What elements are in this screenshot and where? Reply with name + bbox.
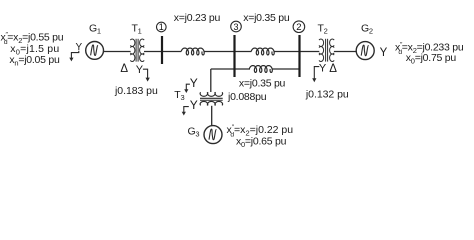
node 3 circled — [231, 21, 242, 32]
svg-text:x=j0.35 pu: x=j0.35 pu — [243, 12, 290, 24]
ground arrow at G1 — [69, 51, 79, 62]
inductor x=j0.35 upper — [251, 48, 274, 55]
generator G2 circle — [356, 42, 374, 60]
lower branch wire: T3 tap through bus3 to coil3 — [211, 68, 250, 70]
transformer T2 — [319, 39, 334, 62]
lower branch wire coil3 to bus2 — [273, 68, 300, 70]
node 2 circled — [293, 21, 305, 33]
bus 3 — [233, 35, 235, 77]
svg-text:T1: T1 — [132, 23, 142, 36]
svg-text:j0.088pu: j0.088pu — [227, 91, 267, 103]
transformer T1 — [130, 39, 144, 62]
svg-text:T3: T3 — [174, 89, 184, 102]
inductor x=j0.23 — [181, 48, 204, 55]
svg-text:T2: T2 — [318, 23, 328, 36]
ground arrow at T3 upper — [184, 84, 190, 93]
svg-text:Δ: Δ — [329, 63, 337, 75]
transformer T3 (horizontal) — [200, 92, 223, 105]
wire T1 to coil1 through bus1 — [144, 51, 181, 53]
ground arrow at T2 — [312, 67, 319, 83]
svg-text:x0=j0.65 pu: x0=j0.65 pu — [236, 135, 287, 149]
bus 2 — [298, 35, 300, 77]
node 1 circled — [157, 22, 167, 32]
wire T2 to G2 — [334, 51, 356, 53]
svg-text:Y: Y — [76, 42, 83, 53]
svg-text:G1: G1 — [89, 23, 101, 36]
svg-text:G2: G2 — [361, 23, 373, 36]
ground arrow at T3 lower — [182, 107, 189, 116]
wire T3 to G3 — [211, 106, 213, 126]
svg-text:Y: Y — [190, 98, 198, 112]
svg-text:Y: Y — [319, 63, 327, 75]
svg-text:G3: G3 — [188, 126, 200, 139]
svg-text:x=j0.35 pu: x=j0.35 pu — [239, 78, 286, 90]
wire drop to T3 — [210, 69, 212, 92]
svg-text:Y: Y — [136, 64, 144, 76]
generator G3 circle — [204, 126, 222, 144]
wire G1 to T1 — [103, 51, 130, 53]
wire coil2 to T2 through bus2 — [274, 51, 319, 53]
inductor x=j0.35 lower — [249, 66, 272, 73]
bus 1 — [161, 36, 163, 64]
svg-text:2: 2 — [296, 22, 301, 33]
svg-text:3: 3 — [233, 22, 238, 32]
svg-text:j0.132 pu: j0.132 pu — [305, 89, 349, 101]
svg-text:x=j0.23 pu: x=j0.23 pu — [174, 12, 221, 24]
wire coil1 to coil2 through bus3 — [204, 51, 251, 53]
ground arrow at T1 — [143, 69, 150, 81]
svg-text:j0.183 pu: j0.183 pu — [114, 85, 158, 97]
svg-text:Y: Y — [380, 47, 388, 59]
svg-text:Δ: Δ — [120, 63, 128, 75]
svg-text:1: 1 — [159, 22, 164, 32]
generator G1 circle — [86, 42, 104, 60]
svg-text:Y: Y — [190, 76, 198, 90]
